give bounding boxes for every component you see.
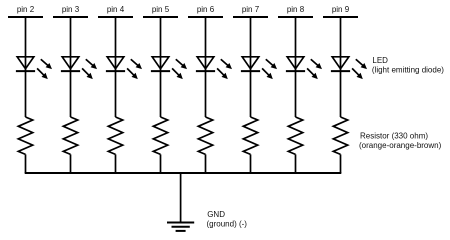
svg-text:pin 3: pin 3	[62, 5, 80, 14]
pin 2 terminal bar	[8, 16, 43, 18]
wire R2 to ground bus	[70, 154, 72, 173]
wire pin 7 to resistor R6	[250, 17, 252, 117]
pin 6 terminal bar	[188, 16, 223, 18]
LED D1 (anode top, cathode bottom)	[16, 57, 52, 79]
resistor R8 330 ohm	[333, 117, 347, 154]
svg-text:pin 8: pin 8	[287, 5, 305, 14]
wire pin 2 to resistor R1	[25, 17, 27, 117]
svg-text:LED: LED	[372, 56, 388, 65]
ground bus wire	[25, 172, 342, 174]
svg-text:pin 9: pin 9	[332, 5, 350, 14]
svg-text:pin 6: pin 6	[197, 5, 215, 14]
svg-text:pin 7: pin 7	[242, 5, 260, 14]
wire R3 to ground bus	[115, 154, 117, 173]
wire pin 3 to resistor R2	[70, 17, 72, 117]
LED D7 (anode top, cathode bottom)	[286, 57, 322, 79]
LED D8 (anode top, cathode bottom)	[331, 57, 367, 79]
LED D6 (anode top, cathode bottom)	[241, 57, 277, 79]
wire pin 6 to resistor R5	[205, 17, 207, 117]
resistor R1 330 ohm	[18, 117, 32, 154]
wire pin 4 to resistor R3	[115, 17, 117, 117]
wire R5 to ground bus	[205, 154, 207, 173]
svg-text:(ground) (-): (ground) (-)	[207, 219, 248, 228]
LED D2 (anode top, cathode bottom)	[61, 57, 97, 79]
svg-text:(light emitting diode): (light emitting diode)	[372, 65, 444, 74]
pin 7 terminal bar	[233, 16, 268, 18]
resistor R5 330 ohm	[198, 117, 212, 154]
pin 3 terminal bar	[53, 16, 88, 18]
resistor R4 330 ohm	[153, 117, 167, 154]
resistor R3 330 ohm	[108, 117, 122, 154]
resistor R2 330 ohm	[63, 117, 77, 154]
wire bus to ground	[180, 173, 182, 223]
pin 5 terminal bar	[143, 16, 178, 18]
wire R6 to ground bus	[250, 154, 252, 173]
wire R8 to ground bus	[340, 154, 342, 173]
resistor R7 330 ohm	[288, 117, 302, 154]
wire pin 8 to resistor R7	[295, 17, 297, 117]
svg-text:GND: GND	[207, 210, 225, 219]
svg-text:pin 4: pin 4	[107, 5, 125, 14]
pin 8 terminal bar	[278, 16, 313, 18]
LED D3 (anode top, cathode bottom)	[106, 57, 142, 79]
ground symbol	[167, 223, 194, 231]
wire pin 9 to resistor R8	[340, 17, 342, 117]
wire R1 to ground bus	[25, 154, 27, 173]
pin 4 terminal bar	[98, 16, 133, 18]
resistor R6 330 ohm	[243, 117, 257, 154]
pin 9 terminal bar	[323, 16, 358, 18]
LED D5 (anode top, cathode bottom)	[196, 57, 232, 79]
svg-text:pin 5: pin 5	[152, 5, 170, 14]
wire R7 to ground bus	[295, 154, 297, 173]
svg-text:(orange-orange-brown): (orange-orange-brown)	[359, 141, 442, 150]
LED D4 (anode top, cathode bottom)	[151, 57, 187, 79]
svg-text:pin 2: pin 2	[17, 5, 35, 14]
wire pin 5 to resistor R4	[160, 17, 162, 117]
svg-text:Resistor (330 ohm): Resistor (330 ohm)	[360, 132, 428, 141]
wire R4 to ground bus	[160, 154, 162, 173]
